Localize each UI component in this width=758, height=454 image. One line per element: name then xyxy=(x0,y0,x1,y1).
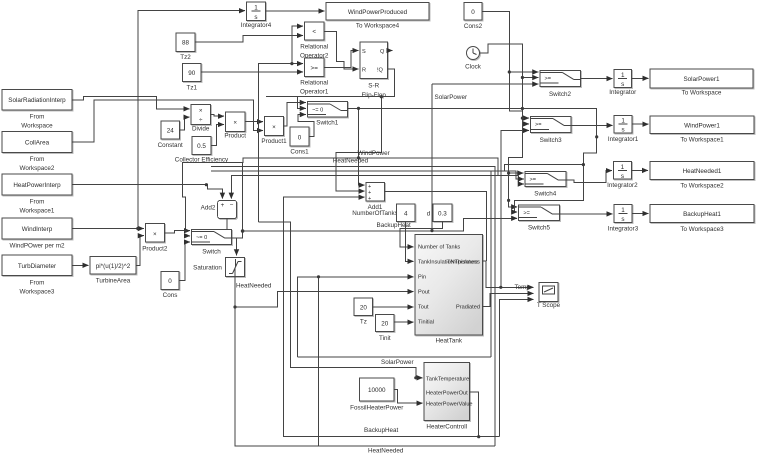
wire HeatNeeded zigzag to Switch.in1 xyxy=(183,158,359,231)
wire Clock branch Switch2.in2 xyxy=(522,77,538,79)
svg-text:d: d xyxy=(427,211,431,218)
svg-text:Clock: Clock xyxy=(465,64,482,71)
svg-text:Tz1: Tz1 xyxy=(187,85,198,92)
wire Switch out to Saturation xyxy=(232,231,243,238)
svg-text:1: 1 xyxy=(621,164,625,171)
wire temp staircase to HeaterControll xyxy=(259,222,416,378)
clock Clock xyxy=(465,47,482,71)
from-workspace TurbDiameter xyxy=(2,255,72,296)
product Product xyxy=(224,112,246,140)
svg-text:Switch5: Switch5 xyxy=(528,225,551,232)
wire Integrator3 to BackupHeat1 xyxy=(632,213,649,215)
wire Cons2 xyxy=(482,11,529,118)
from-workspace WindInterp xyxy=(2,218,72,250)
wire SolarPower riser to Switch2.in3 xyxy=(432,83,538,85)
svg-text:+: + xyxy=(221,202,225,209)
svg-text:0: 0 xyxy=(471,9,475,16)
wire notQ loopback xyxy=(266,69,395,97)
svg-text:To Workspace2: To Workspace2 xyxy=(680,183,724,190)
svg-text:TurbineArea: TurbineArea xyxy=(96,278,131,285)
svg-text:Integrator3: Integrator3 xyxy=(608,226,639,233)
wire WindInterp to Product2.in1 xyxy=(72,228,144,230)
wire HeatPowerInterp to Add2.in1 xyxy=(72,185,222,199)
integrator Integrator4 xyxy=(241,2,272,29)
wire Tz1 to RelOp1.in2 xyxy=(201,71,303,73)
svg-text:s: s xyxy=(621,173,624,180)
wire Integrator1 to WindPower1 xyxy=(632,123,648,125)
svg-text:BackupHeat1: BackupHeat1 xyxy=(683,211,721,218)
wire RelOp1 to S xyxy=(324,51,359,68)
wire branch to RelOp2.in1 xyxy=(292,26,303,63)
svg-text:WindPowerProduced: WindPowerProduced xyxy=(348,9,408,16)
svg-text:To Workspace: To Workspace xyxy=(682,90,722,97)
to-workspace WindPower1 xyxy=(650,116,754,144)
svg-text:TankTemperature: TankTemperature xyxy=(426,376,469,382)
switch Switch1 xyxy=(307,102,347,127)
to-workspace SolarPower1 xyxy=(650,69,753,97)
svg-text:From: From xyxy=(30,199,45,206)
svg-text:0: 0 xyxy=(298,134,302,141)
svg-text:Relational: Relational xyxy=(300,44,328,51)
integrator Integrator3 xyxy=(608,205,639,233)
svg-text:0.3: 0.3 xyxy=(438,211,447,218)
wire bottom BackupHeat line xyxy=(284,197,479,437)
svg-text:Switch3: Switch3 xyxy=(540,137,563,144)
wire branch Switch4.in2 xyxy=(505,165,584,172)
svg-text:Tz: Tz xyxy=(360,319,367,326)
from-workspace SolarRadiationInterp xyxy=(2,90,72,130)
wire Add1 out xyxy=(384,191,486,261)
svg-text:0: 0 xyxy=(168,278,172,285)
svg-text:Integrator4: Integrator4 xyxy=(241,22,272,29)
svg-text:1: 1 xyxy=(621,207,625,214)
svg-text:0.5: 0.5 xyxy=(197,143,206,150)
constant FossilHeaterPower 10000 xyxy=(350,378,403,412)
sum Add1 xyxy=(352,182,398,217)
wire Clock xyxy=(480,44,530,124)
wire FossilHeater to HeaterPowerValue xyxy=(394,390,423,404)
wire Tz to Tout xyxy=(373,306,414,308)
svg-text:TurbDiameter: TurbDiameter xyxy=(18,263,56,270)
svg-text:Workspace1: Workspace1 xyxy=(20,208,55,215)
constant Tint 20 xyxy=(376,314,395,342)
switch Switch5 xyxy=(519,205,560,232)
svg-text:HeatNeeded: HeatNeeded xyxy=(236,283,272,290)
svg-text:HeatTank: HeatTank xyxy=(435,338,462,345)
from-workspace CollArea xyxy=(2,132,72,173)
svg-text:Temp: Temp xyxy=(515,284,531,291)
wire switch-out down to saturation xyxy=(236,238,238,256)
svg-text:>=: >= xyxy=(545,76,552,82)
svg-text:!Q: !Q xyxy=(377,68,384,74)
svg-text:Switch4: Switch4 xyxy=(534,191,557,198)
switch Switch xyxy=(192,229,232,255)
wire HeatNeeded bottom xyxy=(235,307,495,446)
svg-text:>=: >= xyxy=(530,177,537,183)
svg-text:1: 1 xyxy=(621,118,625,125)
wire HeaterPowerOut down xyxy=(469,392,478,437)
svg-text:HeatNeeded: HeatNeeded xyxy=(333,158,369,165)
constant Constant 24 xyxy=(158,121,183,149)
subsystem HeaterControll xyxy=(424,362,472,430)
svg-text:Tout: Tout xyxy=(418,305,429,311)
svg-text:20: 20 xyxy=(381,321,389,328)
svg-text:s: s xyxy=(621,81,624,88)
to-workspace WindPowerProduced xyxy=(326,3,429,30)
svg-text:>=: >= xyxy=(535,122,542,128)
product Product1 xyxy=(261,117,287,146)
wire riser y171 to y357 xyxy=(490,171,492,357)
wire Switch5 to Integrator3 xyxy=(559,213,612,215)
svg-text:HeaterPowerOut: HeaterPowerOut xyxy=(426,391,468,397)
wire Switch2 to Integrator xyxy=(580,78,612,80)
to-workspace HeatNeeded1 xyxy=(650,162,754,190)
integrator Integrator xyxy=(609,70,636,97)
wire heater power to T Scope in3 xyxy=(499,299,533,436)
fcn TurbineArea xyxy=(90,257,136,285)
wire Integrator to SolarPower1 xyxy=(632,77,649,79)
wire to Pout xyxy=(235,292,414,307)
svg-text:SolarRadiationInterp: SolarRadiationInterp xyxy=(8,97,66,104)
svg-text:Integrator: Integrator xyxy=(609,89,636,96)
wire Clock staircase to Switch5.in2 xyxy=(515,137,597,212)
wire branch Switch4.in1 xyxy=(509,172,524,174)
constant Tz2 88 xyxy=(176,33,195,61)
constant Cons1 0 xyxy=(290,127,309,156)
svg-text:Cons1: Cons1 xyxy=(290,149,309,156)
sum Add2 xyxy=(201,201,237,219)
wire Cons2 continue to Switch5.in1 xyxy=(509,118,523,207)
wire bottom continue to riser xyxy=(479,436,500,438)
switch Switch2 xyxy=(540,70,581,98)
constant Collector Efficiency 0.5 xyxy=(175,137,229,164)
svg-text:Relational: Relational xyxy=(300,80,328,87)
wire Product to Product1.in1 xyxy=(245,121,263,123)
svg-text:>=: >= xyxy=(523,211,530,217)
constant Cons2 0 xyxy=(464,3,483,31)
wire Cons2 branch Switch2.in1 xyxy=(509,71,538,73)
relational-operator Relational Operator1 xyxy=(300,58,329,96)
svg-text:Tinitial: Tinitial xyxy=(418,320,434,326)
svg-text:To Workspace1: To Workspace1 xyxy=(680,137,724,144)
svg-text:Integrator1: Integrator1 xyxy=(608,136,639,143)
subsystem HeatTank xyxy=(415,235,483,345)
svg-text:−: − xyxy=(230,202,234,209)
wire RelOp2 to R xyxy=(324,32,359,70)
svg-text:Pradiated: Pradiated xyxy=(456,305,480,311)
svg-text:WindPower: WindPower xyxy=(358,150,390,157)
svg-text:Product1: Product1 xyxy=(261,138,287,145)
svg-text:~= 0: ~= 0 xyxy=(196,235,207,241)
svg-text:~= 0: ~= 0 xyxy=(312,108,323,114)
svg-text:Temperature: Temperature xyxy=(447,259,478,265)
wire Switch4 to Integrator2 xyxy=(566,171,612,183)
wire 0.5 to Product.in2 xyxy=(211,125,224,146)
svg-text:24: 24 xyxy=(167,128,175,135)
constant Cons 0 xyxy=(161,272,179,300)
svg-text:×: × xyxy=(199,108,203,115)
wire 24 to Divide.in2 xyxy=(180,117,190,130)
svg-text:s: s xyxy=(621,216,624,223)
svg-text:WindInterp: WindInterp xyxy=(22,226,53,233)
svg-text:Product: Product xyxy=(224,133,246,140)
wire Cons to Switch.in3 xyxy=(179,242,190,281)
svg-text:To Workspace4: To Workspace4 xyxy=(356,23,400,30)
svg-text:From: From xyxy=(30,156,45,163)
svg-text:To Workspace3: To Workspace3 xyxy=(680,226,724,233)
svg-text:Switch2: Switch2 xyxy=(549,91,572,98)
svg-text:1: 1 xyxy=(621,72,625,79)
svg-text:Integrator2: Integrator2 xyxy=(607,182,638,189)
svg-text:HeatPowerInterp: HeatPowerInterp xyxy=(13,182,61,189)
svg-text:SolarPower1: SolarPower1 xyxy=(683,76,720,83)
wire Cons1 to Switch1.in3 xyxy=(298,115,314,137)
from-workspace HeatPowerInterp xyxy=(2,174,72,215)
svg-text:From: From xyxy=(30,114,45,121)
svg-text:WindPOwer per m2: WindPOwer per m2 xyxy=(10,243,65,250)
wire Switch.in2 stub xyxy=(184,235,190,237)
relational-operator Relational Operator2 xyxy=(300,22,329,59)
svg-text:From: From xyxy=(30,280,45,287)
wire TurbineArea to Product2.in2 xyxy=(136,236,144,266)
svg-text:pi*(u(1)/2)^2: pi*(u(1)/2)^2 xyxy=(96,263,131,270)
svg-text:Pin: Pin xyxy=(418,275,426,281)
svg-text:4: 4 xyxy=(404,211,408,218)
svg-text:s: s xyxy=(622,127,625,134)
wire riser from zig to junction xyxy=(242,162,244,231)
flip-flop S-R Flip-Flop xyxy=(360,42,388,99)
svg-text:10000: 10000 xyxy=(368,387,386,394)
wire Switch1 branch to Add1.in1 xyxy=(359,108,365,185)
wire control riser to Switch1.in2 xyxy=(298,97,306,109)
svg-text:×: × xyxy=(272,124,276,131)
svg-text:Operator1: Operator1 xyxy=(300,89,329,96)
svg-text:Switch1: Switch1 xyxy=(316,120,339,127)
wire long mid horizontal B xyxy=(211,171,524,179)
svg-text:Constant: Constant xyxy=(158,142,183,149)
svg-text:Workspace: Workspace xyxy=(21,123,53,130)
svg-text:Product2: Product2 xyxy=(142,246,168,253)
svg-text:S: S xyxy=(362,49,366,55)
svg-text:SolarPower: SolarPower xyxy=(381,359,414,366)
wire Product2 to Switch.in1 xyxy=(164,231,190,233)
constant 4 xyxy=(396,204,415,222)
wire Divide to Product.in1 xyxy=(211,115,225,117)
wire 4 to TankInsulation xyxy=(406,222,414,262)
svg-text:88: 88 xyxy=(182,40,190,47)
wire branch down from Pin line xyxy=(318,277,320,446)
svg-text:Saturation: Saturation xyxy=(193,265,222,272)
svg-text:×: × xyxy=(233,120,237,127)
svg-text:T Scope: T Scope xyxy=(537,302,561,309)
scope T Scope xyxy=(537,283,561,310)
product Product2 xyxy=(142,224,168,253)
svg-text:S-R: S-R xyxy=(368,83,379,90)
wire CollArea to Product1.in2 xyxy=(72,100,263,142)
svg-text:BackupHeat: BackupHeat xyxy=(364,427,399,434)
wire Tz2 to RelOp2.in2 xyxy=(195,36,303,43)
switch Switch4 xyxy=(525,171,566,197)
wire HeatNeeded mid extension east xyxy=(359,158,498,176)
constant Tz 20 xyxy=(354,298,372,325)
svg-text:R: R xyxy=(362,68,366,74)
wire Add2 out xyxy=(226,218,228,229)
svg-text:HeatNeeded1: HeatNeeded1 xyxy=(683,168,722,175)
wire long horizontal SolarPower xyxy=(243,218,518,231)
wire notQ branch down to Add1.in2 xyxy=(336,97,381,191)
constant d 0.3 xyxy=(427,204,452,222)
svg-text:÷: ÷ xyxy=(199,117,203,124)
wire Integrator2 to HeatNeeded1 xyxy=(631,169,648,171)
svg-text:90: 90 xyxy=(188,70,196,77)
svg-text:Add2: Add2 xyxy=(201,205,216,212)
svg-text:Pout: Pout xyxy=(418,290,430,296)
svg-text:FossilHeaterPower: FossilHeaterPower xyxy=(350,405,403,412)
svg-text:Q: Q xyxy=(380,49,385,55)
saturation Saturation xyxy=(193,258,244,277)
svg-text:+: + xyxy=(368,196,371,202)
wire TurbDiameter to TurbineArea xyxy=(72,264,89,266)
svg-text:Cons2: Cons2 xyxy=(464,23,483,30)
wire Q stub xyxy=(388,50,393,52)
svg-text:Tinit: Tinit xyxy=(379,335,391,342)
svg-text:Switch: Switch xyxy=(202,249,221,256)
svg-text:<: < xyxy=(312,29,316,36)
svg-text:HeaterPowerValue: HeaterPowerValue xyxy=(426,402,473,408)
constant Tz1 90 xyxy=(183,64,202,92)
wire 0.3 to NumberOfTanks xyxy=(400,222,443,247)
svg-text:Tz2: Tz2 xyxy=(180,54,191,61)
wire long line to Add2.in2 xyxy=(231,176,518,199)
divide Divide xyxy=(191,105,211,133)
svg-text:Flip-Flop: Flip-Flop xyxy=(361,92,386,99)
wire Add2 line east to Switch4.in3 xyxy=(519,176,524,184)
svg-text:Cons: Cons xyxy=(163,292,178,299)
svg-text:Divide: Divide xyxy=(192,126,210,133)
svg-text:HeaterControll: HeaterControll xyxy=(426,424,467,431)
wire Tint to Tinitial xyxy=(394,321,413,323)
svg-text:SolarPower: SolarPower xyxy=(435,94,468,101)
wire temperature feedback to relational operators xyxy=(259,64,292,222)
svg-text:20: 20 xyxy=(360,305,368,312)
wire branch up to Integrator4 xyxy=(138,11,245,229)
svg-text:HeatNeeded: HeatNeeded xyxy=(368,448,404,454)
wire Temp riser to Switch3.in3 xyxy=(501,130,529,287)
svg-text:>=: >= xyxy=(311,65,319,72)
switch Switch3 xyxy=(531,116,571,144)
svg-text:Workspace3: Workspace3 xyxy=(20,289,55,296)
svg-text:CollArea: CollArea xyxy=(25,140,50,147)
svg-text:WindPower1: WindPower1 xyxy=(684,122,720,129)
svg-text:s: s xyxy=(254,14,257,21)
integrator Integrator2 xyxy=(607,162,638,189)
wire Temp to T Scope xyxy=(483,261,534,287)
wire Saturation out down xyxy=(234,277,236,308)
wire Switch3 to Integrator1 xyxy=(571,124,613,126)
svg-text:NumberOfTanks: NumberOfTanks xyxy=(352,210,398,217)
to-workspace BackupHeat1 xyxy=(650,205,754,234)
wire Product1 to Switch1.in1 xyxy=(284,103,306,127)
wire wrap y357 xyxy=(298,356,491,358)
wire Integrator4 to WindPowerProduced xyxy=(266,10,325,12)
wire Pradiated to T Scope xyxy=(483,293,534,306)
wire Solar to Divide.in1 xyxy=(72,96,190,109)
svg-text:1: 1 xyxy=(254,5,258,12)
wire long mid horizontal A xyxy=(211,167,495,447)
wire Switch1.out east xyxy=(347,108,596,136)
svg-text:Workspace2: Workspace2 xyxy=(20,165,55,172)
wire riser to Pin xyxy=(298,277,414,357)
svg-text:Number of Tanks: Number of Tanks xyxy=(418,245,460,251)
svg-text:×: × xyxy=(153,231,157,238)
integrator Integrator1 xyxy=(608,115,639,143)
